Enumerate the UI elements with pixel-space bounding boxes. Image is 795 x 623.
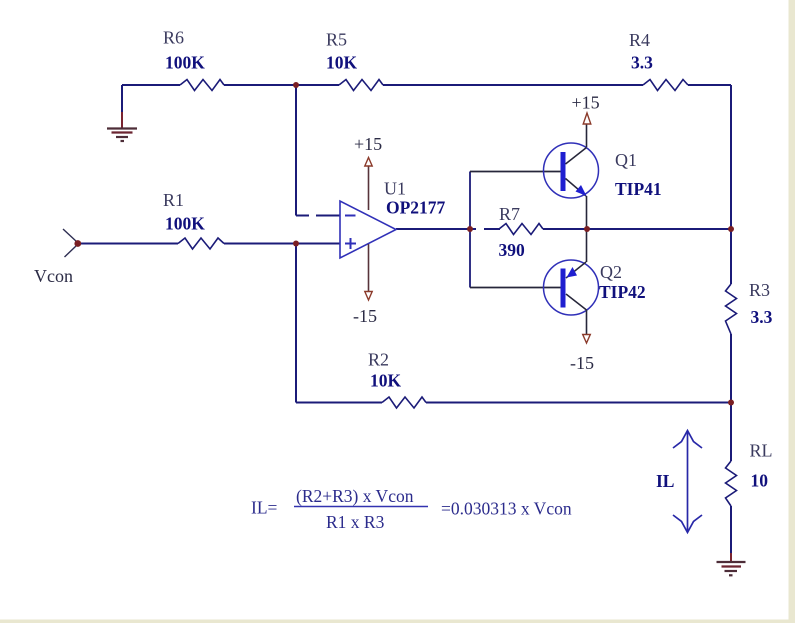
IL arrow — [673, 431, 702, 533]
svg-text:TIP42: TIP42 — [599, 282, 646, 302]
transistor Q1 — [544, 124, 599, 229]
port Vcon chevron — [63, 229, 77, 257]
svg-text:TIP41: TIP41 — [615, 179, 662, 199]
svg-text:390: 390 — [499, 240, 526, 260]
junction node top rail — [293, 82, 299, 88]
wire inverting input branch — [296, 85, 340, 216]
resistor RL — [726, 461, 737, 506]
svg-text:3.3: 3.3 — [631, 53, 653, 73]
svg-text:10: 10 — [751, 471, 769, 491]
junction node rail bottom — [728, 400, 734, 406]
svg-text:3.3: 3.3 — [751, 307, 773, 327]
wire right rail — [730, 85, 732, 553]
svg-text:R4: R4 — [629, 30, 650, 50]
svg-text:R6: R6 — [163, 28, 184, 48]
resistor R3 — [726, 284, 737, 334]
svg-text:-15: -15 — [353, 306, 377, 326]
wire feedback bottom branch — [296, 244, 731, 403]
page border bottom strip — [0, 620, 795, 623]
svg-text:OP2177: OP2177 — [386, 198, 446, 218]
ground left — [107, 129, 137, 142]
svg-text:10K: 10K — [370, 371, 402, 391]
svg-text:R1 x R3: R1 x R3 — [326, 512, 385, 532]
svg-text:IL: IL — [656, 471, 674, 491]
resistor R1 — [178, 238, 224, 249]
svg-text:100K: 100K — [165, 214, 205, 234]
svg-text:(R2+R3) x Vcon: (R2+R3) x Vcon — [296, 486, 414, 506]
svg-text:=0.030313 x Vcon: =0.030313 x Vcon — [441, 499, 572, 519]
wire transistor base rail — [470, 172, 561, 288]
junction node noninverting input — [293, 241, 299, 247]
junction node op-amp output — [467, 226, 473, 232]
svg-text:R1: R1 — [163, 190, 184, 210]
svg-text:U1: U1 — [384, 179, 406, 199]
junction node Vcon — [74, 240, 81, 247]
op-amp +15 power pin — [365, 158, 372, 211]
svg-text:R5: R5 — [326, 30, 347, 50]
ground right — [717, 562, 746, 575]
op-amp -15 power pin — [365, 244, 372, 300]
wire rail maroon stub to ground — [730, 553, 732, 561]
resistor R5 — [339, 80, 383, 91]
svg-text:IL=: IL= — [251, 498, 278, 518]
op-amp U1 — [340, 201, 396, 258]
resistor R7 — [499, 224, 543, 235]
svg-text:10K: 10K — [326, 53, 358, 73]
resistor R6 — [180, 80, 224, 91]
svg-text:Q2: Q2 — [600, 262, 622, 282]
Q1 +15 power arrow — [583, 113, 591, 124]
resistor R2 — [382, 397, 426, 408]
svg-text:Vcon: Vcon — [34, 266, 73, 286]
junction node emitters — [584, 226, 590, 232]
svg-text:+15: +15 — [354, 134, 382, 154]
svg-text:+15: +15 — [572, 93, 600, 113]
svg-text:R2: R2 — [368, 350, 389, 370]
svg-text:R7: R7 — [499, 204, 520, 224]
junction node rail output — [728, 226, 734, 232]
formula fraction bar — [294, 506, 428, 508]
svg-text:RL: RL — [750, 441, 773, 461]
wire Vcon to noninverting input — [78, 243, 340, 245]
transistor Q2 — [544, 229, 599, 335]
wire left ground stub — [121, 85, 123, 128]
resistor R4 — [643, 80, 688, 91]
wire op-amp output line — [396, 228, 731, 230]
svg-text:Q1: Q1 — [615, 150, 637, 170]
svg-text:100K: 100K — [165, 53, 205, 73]
wire top rail — [122, 84, 731, 86]
Q2 -15 power arrow — [583, 335, 591, 344]
page border right strip — [789, 0, 795, 623]
svg-text:R3: R3 — [749, 280, 770, 300]
svg-text:-15: -15 — [570, 353, 594, 373]
